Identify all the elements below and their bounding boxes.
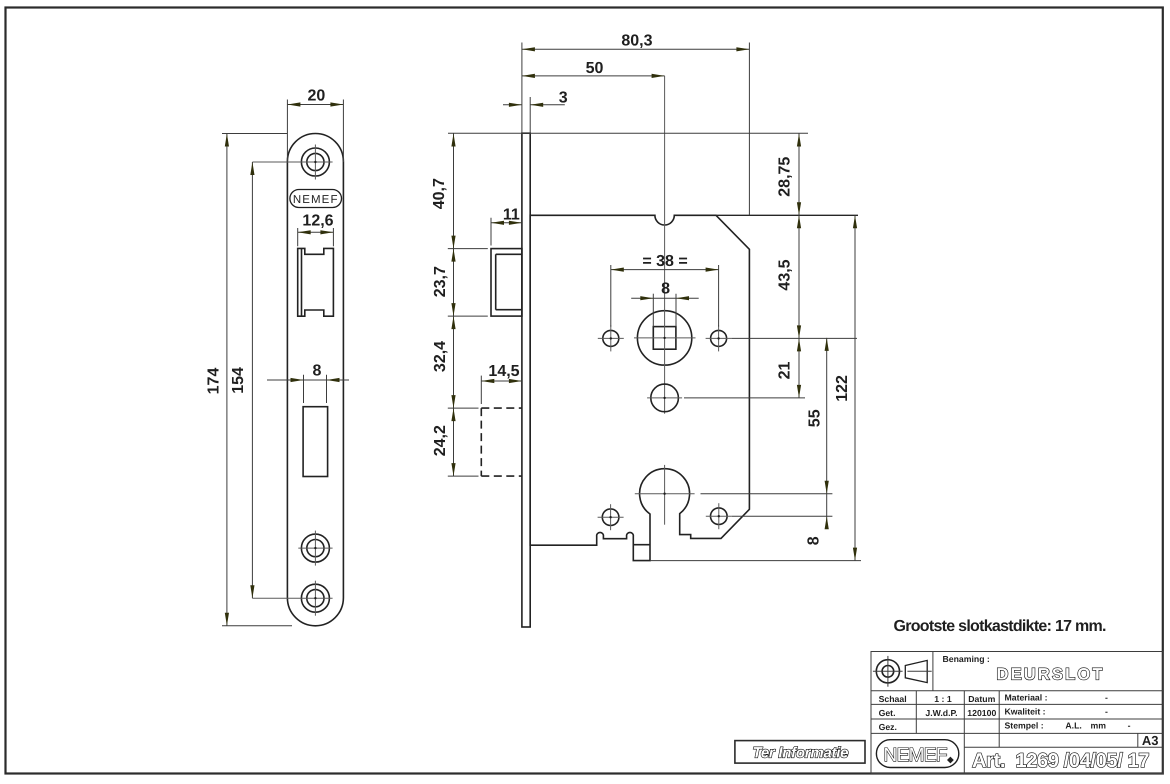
dimension 122 <box>834 215 857 560</box>
svg-text:174: 174 <box>206 368 223 395</box>
svg-text:32,4: 32,4 <box>432 341 449 372</box>
svg-text:NEMEF: NEMEF <box>293 194 339 206</box>
NEMEF logo on faceplate <box>290 190 342 208</box>
svg-text:Materiaal :: Materiaal : <box>1005 692 1048 702</box>
svg-text:Datum: Datum <box>968 694 995 704</box>
svg-text:Art. 1269 /04/05/ 17: Art. 1269 /04/05/ 17 <box>972 750 1150 772</box>
dimension 8 spindle <box>631 281 699 327</box>
svg-text:-: - <box>1105 706 1108 716</box>
NEMEF logo title block <box>876 740 958 768</box>
faceplate outline <box>287 134 343 626</box>
case hole bottom right <box>706 503 833 529</box>
svg-text:8: 8 <box>312 363 321 380</box>
svg-text:120100: 120100 <box>967 708 996 718</box>
svg-text:154: 154 <box>230 367 247 394</box>
lock case outline <box>530 215 749 560</box>
svg-text:28,75: 28,75 <box>777 157 794 197</box>
svg-text:24,2: 24,2 <box>432 425 449 456</box>
svg-text:= 38 =: = 38 = <box>642 253 687 270</box>
svg-text:55: 55 <box>806 409 823 427</box>
svg-text:Ter Informatie: Ter Informatie <box>753 745 849 762</box>
svg-text:21: 21 <box>777 362 794 380</box>
latch cutout front <box>298 248 334 316</box>
dimension 14,5 <box>481 363 522 383</box>
dimension =38= <box>611 253 719 326</box>
svg-text:43,5: 43,5 <box>777 259 794 290</box>
extension lines above strip <box>521 43 523 134</box>
bottom step inner line <box>633 544 650 546</box>
dimension 174 <box>206 134 292 626</box>
svg-text:50: 50 <box>586 60 604 77</box>
svg-text:Schaal: Schaal <box>879 694 907 704</box>
deadbolt cutout front <box>303 407 328 477</box>
svg-text:Benaming :: Benaming : <box>943 654 990 664</box>
extension line case top to right <box>716 214 858 216</box>
svg-text:Gez.: Gez. <box>879 722 897 732</box>
svg-text:1 : 1: 1 : 1 <box>934 694 952 704</box>
svg-text:Get.: Get. <box>879 708 896 718</box>
svg-text:20: 20 <box>308 87 326 104</box>
svg-text:-: - <box>1105 692 1108 702</box>
svg-text:DEURSLOT: DEURSLOT <box>997 666 1103 684</box>
svg-text:-: - <box>1128 721 1131 731</box>
fixing hole center <box>647 384 805 412</box>
handle screw hole left <box>598 325 624 351</box>
cylinder hole centerlines <box>635 465 833 525</box>
svg-text:NEMEF: NEMEF <box>884 745 948 766</box>
Ter Informatie box <box>735 741 865 764</box>
extension line top of strip <box>448 132 808 134</box>
screw hole bottom 1 <box>298 531 332 566</box>
dimension 8 faceplate <box>267 363 349 404</box>
svg-text:J.W.d.P.: J.W.d.P. <box>925 708 957 718</box>
dimension 80,3 <box>522 33 750 216</box>
svg-text:A3: A3 <box>1142 733 1159 748</box>
dimension 12,6 <box>298 213 334 247</box>
dimension 154 <box>230 162 255 598</box>
svg-text:14,5: 14,5 <box>488 363 519 380</box>
extension line case bottom to right <box>650 560 861 562</box>
svg-text:3: 3 <box>559 89 568 106</box>
right chain 28,75 / 43,5 / 21 <box>777 134 802 398</box>
faceplate edge strip <box>522 133 530 627</box>
chain 55 / 8 <box>806 338 829 545</box>
title block grid <box>871 652 1163 774</box>
svg-text:8: 8 <box>806 536 823 545</box>
svg-text:12,6: 12,6 <box>302 213 333 230</box>
dimension 50 <box>522 60 665 78</box>
svg-text:8: 8 <box>661 281 670 298</box>
latch side view <box>491 249 522 317</box>
dimension 3 <box>503 89 568 107</box>
case hole bottom left <box>598 504 624 530</box>
svg-text:Grootste slotkastdikte: 17 mm.: Grootste slotkastdikte: 17 mm. <box>894 618 1107 635</box>
svg-text:80,3: 80,3 <box>621 33 652 50</box>
dimension 11 <box>491 207 522 246</box>
svg-text:23,7: 23,7 <box>432 266 449 297</box>
dimension 20 <box>287 87 343 162</box>
screw hole top <box>252 145 332 180</box>
svg-text:122: 122 <box>834 375 851 402</box>
svg-text:mm: mm <box>1091 721 1107 731</box>
first angle projection symbol <box>873 656 932 687</box>
handle screw hole right <box>706 325 857 351</box>
svg-text:Stempel :: Stempel : <box>1005 721 1044 731</box>
svg-text:A.L.: A.L. <box>1065 721 1081 731</box>
screw hole bottom 2 <box>252 581 332 616</box>
spindle follower <box>634 76 696 414</box>
left chain dimensions 40,7 / 23,7 / 32,4 / 24,2 <box>431 134 488 477</box>
svg-text:Kwaliteit :: Kwaliteit : <box>1005 706 1046 716</box>
deadbolt side view dashed <box>481 376 522 477</box>
svg-text:11: 11 <box>503 207 520 224</box>
svg-text:40,7: 40,7 <box>431 178 448 209</box>
